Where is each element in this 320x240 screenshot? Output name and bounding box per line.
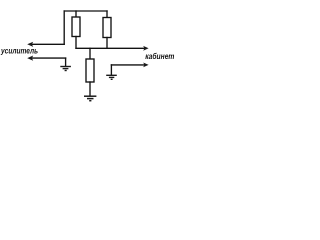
wire left ground stub	[65, 58, 67, 66]
svg-text:усилитель: усилитель	[0, 45, 38, 55]
wire R3 bottom stub	[89, 82, 91, 95]
resistor R3	[86, 59, 94, 82]
arrowhead to amplifier lower	[27, 56, 33, 61]
ground (center, under R3)	[84, 96, 96, 101]
ground (left, amplifier return)	[60, 67, 71, 71]
wire bottom rail to cabinet (output lead)	[76, 47, 145, 49]
svg-text:кабинет: кабинет	[145, 51, 175, 61]
wire R2 top stub	[106, 11, 108, 18]
wire R2 bottom stub	[106, 38, 108, 49]
arrowhead to amplifier upper	[27, 42, 33, 47]
wire top rail	[64, 10, 107, 12]
wire left vertical (input branch)	[63, 11, 65, 44]
wire amplifier return (lower left lead)	[31, 57, 66, 59]
arrowhead to cabinet upper	[143, 46, 148, 51]
wire right ground stub	[110, 65, 112, 75]
resistor R2	[103, 18, 111, 38]
wire cabinet return (lower right lead)	[111, 64, 144, 66]
wire to amplifier (upper left lead)	[31, 43, 64, 45]
ground (right, cabinet return)	[106, 75, 117, 79]
arrowhead to cabinet lower	[143, 63, 148, 68]
wire R1 bottom stub	[75, 37, 77, 49]
resistor R1	[72, 17, 80, 37]
wire R1 top stub	[75, 11, 77, 17]
wire R3 top stub	[89, 48, 91, 59]
